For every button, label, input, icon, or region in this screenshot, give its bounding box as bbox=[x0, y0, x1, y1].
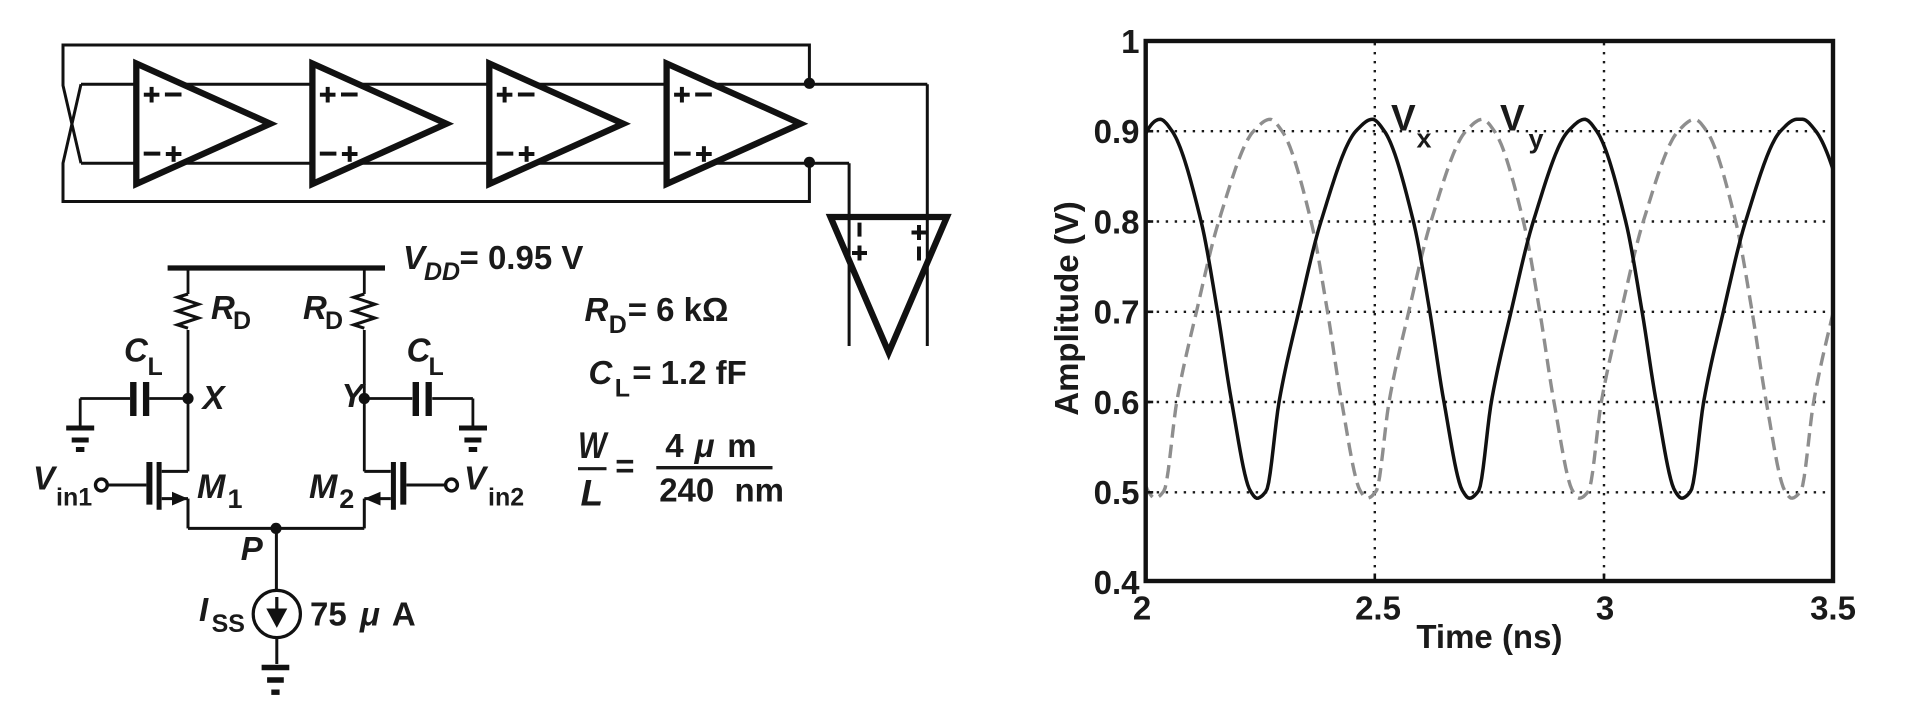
svg-text:L: L bbox=[615, 375, 630, 403]
svg-text:L: L bbox=[429, 353, 444, 381]
svg-text:Y: Y bbox=[341, 377, 366, 414]
svg-text:I: I bbox=[199, 591, 209, 628]
svg-text:L: L bbox=[148, 353, 163, 381]
svg-text:0.9: 0.9 bbox=[1094, 113, 1140, 150]
svg-text:V: V bbox=[1391, 97, 1416, 138]
svg-text:=: = bbox=[615, 448, 634, 485]
svg-text:= 0.95 V: = 0.95 V bbox=[460, 239, 584, 276]
svg-text:75: 75 bbox=[310, 596, 347, 633]
svg-text:P: P bbox=[241, 530, 264, 567]
svg-text:240: 240 bbox=[659, 472, 714, 509]
svg-text:2.5: 2.5 bbox=[1355, 590, 1401, 627]
svg-text:D: D bbox=[325, 307, 343, 335]
svg-text:4: 4 bbox=[665, 427, 684, 464]
svg-text:SS: SS bbox=[212, 610, 245, 638]
svg-text:C: C bbox=[124, 332, 149, 369]
svg-text:= 6 kΩ: = 6 kΩ bbox=[628, 291, 729, 328]
svg-text:μ: μ bbox=[694, 427, 715, 464]
svg-text:D: D bbox=[609, 311, 627, 339]
svg-text:nm: nm bbox=[735, 472, 785, 509]
svg-text:W: W bbox=[578, 425, 609, 466]
svg-text:= 1.2 fF: = 1.2 fF bbox=[632, 354, 747, 391]
svg-text:L: L bbox=[581, 473, 604, 514]
svg-text:1: 1 bbox=[1121, 23, 1139, 60]
svg-text:C: C bbox=[589, 354, 614, 391]
svg-text:μ: μ bbox=[359, 596, 380, 633]
svg-text:x: x bbox=[1417, 124, 1432, 154]
svg-text:Amplitude (V): Amplitude (V) bbox=[1048, 201, 1085, 415]
svg-text:0.5: 0.5 bbox=[1094, 474, 1140, 511]
svg-text:M: M bbox=[309, 468, 338, 506]
svg-text:in1: in1 bbox=[56, 484, 92, 512]
svg-text:m: m bbox=[727, 427, 756, 464]
svg-text:DD: DD bbox=[424, 258, 460, 286]
svg-text:3: 3 bbox=[1596, 590, 1614, 627]
svg-text:0.6: 0.6 bbox=[1094, 384, 1140, 421]
svg-text:0.8: 0.8 bbox=[1094, 203, 1140, 240]
svg-text:Time (ns): Time (ns) bbox=[1416, 618, 1562, 655]
svg-text:y: y bbox=[1529, 124, 1544, 154]
svg-text:2: 2 bbox=[339, 484, 354, 514]
svg-text:V: V bbox=[464, 460, 489, 497]
svg-text:R: R bbox=[211, 289, 235, 326]
svg-text:0.7: 0.7 bbox=[1094, 294, 1140, 331]
svg-text:3.5: 3.5 bbox=[1810, 590, 1856, 627]
svg-text:X: X bbox=[201, 379, 227, 416]
svg-text:D: D bbox=[233, 307, 251, 335]
svg-text:M: M bbox=[197, 468, 226, 506]
svg-text:A: A bbox=[392, 596, 416, 633]
svg-text:V: V bbox=[33, 460, 58, 497]
svg-text:2: 2 bbox=[1133, 590, 1151, 627]
svg-text:V: V bbox=[1500, 97, 1525, 138]
svg-text:R: R bbox=[585, 291, 609, 328]
svg-text:1: 1 bbox=[228, 484, 243, 514]
svg-text:in2: in2 bbox=[488, 484, 524, 512]
svg-text:R: R bbox=[303, 289, 327, 326]
